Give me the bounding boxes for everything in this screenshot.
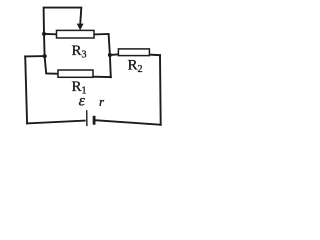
svg-text:R2: R2 [128,58,143,76]
svg-text:R3: R3 [72,43,87,61]
svg-text:ε: ε [79,93,86,110]
svg-text:r: r [99,94,105,109]
